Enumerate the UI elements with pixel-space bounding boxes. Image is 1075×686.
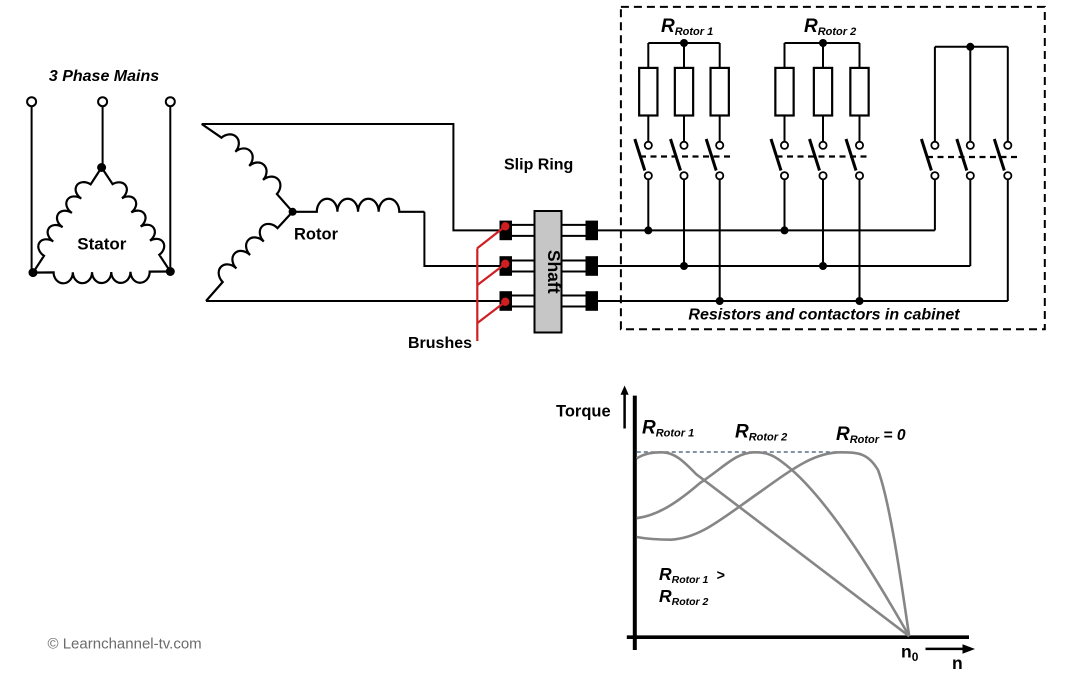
wire rotor phase2 middle (424, 212, 499, 266)
R2 top bus (785, 42, 860, 44)
wire rotor phase1 top (202, 124, 500, 230)
svg-text:Torque: Torque (556, 403, 611, 421)
node K1-1 row junction (644, 226, 652, 234)
wire K3 bus to contactor 2 (969, 47, 971, 142)
cabinet dashed enclosure (621, 7, 1045, 329)
wire contactor K3 pole 3 to row end (1007, 179, 1009, 301)
torque curve R_Rotor 1 (637, 452, 910, 636)
svg-text:n: n (952, 653, 963, 673)
graph y-axis (633, 396, 637, 650)
wire row1 to cabinet (598, 229, 935, 231)
shaft box (535, 211, 562, 333)
slip ring double line right row3 (562, 296, 586, 307)
brush bus vertical (red) (476, 249, 478, 342)
svg-text:Stator: Stator (77, 235, 127, 254)
resistor R1-2 (675, 68, 693, 116)
svg-text:Resistors and contactors in ca: Resistors and contactors in cabinet (688, 307, 960, 324)
node: rotor star point (289, 208, 297, 216)
rotor winding lower-left (206, 212, 293, 301)
R1 top bus (648, 42, 719, 44)
wire contactor K1 pole 1 to row (647, 179, 649, 230)
svg-text:RRotor 1: RRotor 1 (642, 418, 694, 440)
torque curve R_Rotor = 0 (637, 452, 910, 636)
node R1 bus junction (680, 39, 688, 47)
terminal L3 (166, 97, 175, 106)
wire contactor K2 pole 1 to row (784, 179, 786, 230)
svg-text:Rotor: Rotor (294, 226, 339, 244)
node K2-1 row junction (781, 226, 789, 234)
wire resistor R2-3 to contactor (859, 116, 861, 142)
svg-text:RRotor 2: RRotor 2 (804, 16, 856, 38)
contactor K3 pole 3 (994, 139, 1011, 179)
wire L2 down (102, 106, 104, 167)
wire contactor K2 pole 2 to row (822, 179, 824, 266)
wire R2 bus to resistor 3 (859, 43, 861, 68)
brush contact dot row2 (501, 260, 509, 268)
node: delta bottom-right vertex (166, 267, 175, 276)
resistor R2-2 (814, 68, 832, 116)
wire contactor K1 pole 2 to row (683, 179, 685, 266)
resistor R2-1 (775, 68, 793, 116)
wire contactor K1 pole 3 to row (719, 179, 721, 301)
wire resistor R2-2 to contactor (822, 116, 824, 142)
wire R2 bus to resistor 2 (822, 43, 824, 68)
svg-text:Slip Ring: Slip Ring (504, 157, 573, 174)
svg-text:RRotor 2: RRotor 2 (735, 422, 787, 444)
node K3 bus junction (966, 43, 974, 51)
contactor K3 pole 1 (921, 139, 938, 179)
wire resistor R1-2 to contactor (683, 116, 685, 142)
slip ring double line right row1 (562, 225, 586, 236)
slip ring contact block left row2 (500, 256, 513, 276)
contactor K3 linkage (dashed) (927, 156, 1019, 158)
wire R1 bus to resistor 1 (647, 43, 649, 68)
slip ring contact block left row3 (500, 291, 513, 311)
contactor K1 pole 1 (635, 139, 652, 179)
contactor K1 linkage (dashed) (640, 155, 731, 157)
contactor K3 pole 2 (957, 139, 974, 179)
node: delta top vertex (97, 163, 106, 172)
dashed peak torque line (637, 451, 839, 453)
svg-text:n0: n0 (901, 642, 919, 665)
svg-text:Brushes: Brushes (408, 335, 472, 352)
svg-text:RRotor = 0: RRotor = 0 (836, 424, 906, 446)
torque curve R_Rotor 2 (637, 452, 910, 636)
wire contactor K3 pole 1 to row end (934, 179, 936, 230)
slip ring double line right row2 (562, 261, 586, 272)
wire resistor R2-1 to contactor (784, 116, 786, 142)
brush lead row3 (477, 302, 505, 323)
wire R2 bus to resistor 1 (784, 43, 786, 68)
node R2 bus junction (819, 39, 827, 47)
svg-text:RRotor 1 >: RRotor 1 > (659, 564, 725, 586)
brush lead row1 (477, 226, 505, 248)
wire K3 bus to contactor 1 (934, 47, 936, 142)
torque axis arrow (623, 394, 626, 429)
terminal L1 (27, 97, 36, 106)
resistor R2-3 (850, 68, 868, 116)
contactor K2 pole 3 (846, 139, 863, 179)
brush contact dot row3 (501, 298, 509, 306)
contactor K1 pole 2 (671, 139, 688, 179)
contactor K1 pole 3 (706, 139, 723, 179)
svg-text:© Learnchannel-tv.com: © Learnchannel-tv.com (48, 636, 202, 653)
node K1-2 row junction (680, 262, 688, 270)
node K1-3 row junction (716, 297, 724, 305)
svg-text:Shaft: Shaft (544, 250, 564, 294)
resistor R1-3 (711, 68, 729, 116)
stator winding bottom (delta side) (33, 272, 170, 284)
slip ring contact block left row1 (500, 221, 513, 241)
wire R1 bus to resistor 2 (683, 43, 685, 68)
wire L1 down (31, 106, 33, 272)
wire rotor phase3 bottom (206, 300, 500, 302)
stator winding right (delta side) (102, 168, 171, 272)
slip ring contact block right row2 (586, 256, 599, 276)
wire contactor K2 pole 3 to row (859, 179, 861, 301)
contactor K2 linkage (dashed) (777, 155, 868, 157)
rotor winding right (293, 199, 425, 212)
K3 top bus (935, 46, 1008, 48)
svg-text:3 Phase Mains: 3 Phase Mains (49, 68, 159, 85)
terminal L2 (98, 97, 107, 106)
node K2-2 row junction (819, 262, 827, 270)
resistor R1-1 (639, 68, 657, 116)
wire row2 to cabinet (598, 265, 970, 267)
slip ring double line left row3 (512, 296, 535, 307)
n axis arrow (926, 648, 967, 651)
slip ring contact block right row1 (586, 221, 599, 241)
svg-text:RRotor 2: RRotor 2 (659, 586, 709, 608)
svg-text:RRotor 1: RRotor 1 (661, 16, 713, 38)
contactor K2 pole 1 (771, 139, 788, 179)
wire L3 down (169, 106, 171, 271)
wire row3 to cabinet (598, 300, 1008, 302)
slip ring double line left row2 (512, 261, 535, 272)
brush contact dot row1 (501, 222, 509, 230)
graph x-axis (627, 635, 969, 639)
stator winding left (delta side) (33, 168, 102, 273)
slip ring contact block right row3 (586, 291, 599, 311)
wire K3 bus to contactor 3 (1007, 47, 1009, 142)
brush lead row2 (477, 264, 505, 285)
node K2-3 row junction (856, 297, 864, 305)
wire resistor R1-3 to contactor (719, 116, 721, 142)
wire resistor R1-1 to contactor (647, 116, 649, 142)
slip ring double line left row1 (512, 225, 535, 236)
wire contactor K3 pole 2 to row end (969, 179, 971, 266)
node: delta bottom-left vertex (29, 268, 38, 277)
rotor winding upper-left (202, 124, 293, 212)
contactor K2 pole 2 (810, 139, 827, 179)
wire R1 bus to resistor 3 (719, 43, 721, 68)
